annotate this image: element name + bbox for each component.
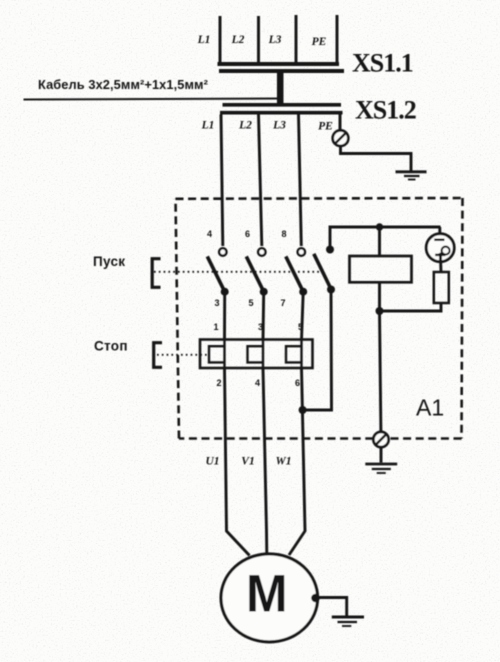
wire pole3 to overload <box>302 292 304 340</box>
node coil bottom junction <box>376 307 384 315</box>
wire L3 supply top <box>295 15 298 63</box>
svg-text:6: 6 <box>245 229 250 239</box>
cable label leader line <box>24 99 282 100</box>
ground (control circuit) <box>365 464 397 473</box>
svg-text:L3: L3 <box>272 120 286 132</box>
wire to lamp <box>438 227 441 239</box>
wire L2 XS1.2 to contact <box>259 115 262 247</box>
wire lamp to resistor <box>439 255 443 272</box>
svg-text:3: 3 <box>214 298 219 308</box>
svg-text:4: 4 <box>255 378 260 388</box>
contact KM1.2 (pole 2) <box>246 248 267 295</box>
wire W1 overload to motor <box>289 368 305 555</box>
connector XS1.2 upper bar <box>223 103 342 107</box>
terminal A1-PE (screw clamp) <box>373 432 388 447</box>
svg-text:L3: L3 <box>268 34 282 46</box>
lamp HL1 <box>426 234 454 262</box>
terminal PE (screw clamp) <box>333 130 349 146</box>
wire junction to coil <box>378 227 381 256</box>
svg-text:W1: W1 <box>276 456 292 468</box>
svg-text:Пуск: Пуск <box>93 254 125 269</box>
aux contact bottom terminal dot <box>327 286 335 294</box>
svg-text:L2: L2 <box>238 120 252 132</box>
thermal element phase 2 <box>248 340 264 369</box>
aux contact KM1.4 top wire <box>330 227 441 250</box>
svg-text:Кабель 3х2,5мм²+1х1,5мм²: Кабель 3х2,5мм²+1х1,5мм² <box>38 77 208 92</box>
node coil feed junction <box>376 223 383 230</box>
ground (motor) <box>332 617 364 626</box>
wire terminal to ground <box>380 447 383 463</box>
svg-text:L2: L2 <box>231 34 245 46</box>
linkage dotted line (stop) <box>157 354 207 356</box>
linkage dotted line (start) <box>154 271 322 273</box>
svg-text:8: 8 <box>281 229 286 239</box>
cable (thick link XS1.1 to XS1.2) <box>277 73 284 104</box>
svg-text:5: 5 <box>248 298 253 308</box>
wire L2 supply top <box>257 16 260 63</box>
ground (PE input) <box>396 172 427 180</box>
wire V1 overload to motor <box>263 368 267 555</box>
thermal element phase 3 <box>286 340 302 369</box>
wire junction to resistor bottom <box>380 303 442 311</box>
svg-text:1: 1 <box>213 322 218 332</box>
node aux-to-W1 junction <box>299 406 307 414</box>
wire pole1 to overload <box>223 292 226 340</box>
connector XS1.1 upper bar <box>218 62 340 66</box>
wire PE XS1.2 stub <box>339 115 342 132</box>
wire L3 XS1.2 to contact <box>299 115 302 247</box>
svg-text:2: 2 <box>216 378 221 388</box>
wire coil to bottom junction <box>378 282 381 311</box>
wire PE supply top <box>336 15 339 63</box>
coil KM1 <box>350 256 412 282</box>
wire coil to PE terminal <box>380 311 381 432</box>
aux contact blade <box>314 254 331 289</box>
svg-text:V1: V1 <box>241 456 254 468</box>
svg-text:A1: A1 <box>416 395 444 421</box>
wire pole2 to overload <box>262 292 266 340</box>
motor M1 <box>221 554 318 642</box>
aux contact top terminal dot <box>326 246 334 254</box>
contact KM1.3 (pole 3) <box>286 248 307 295</box>
svg-text:Стоп: Стоп <box>94 339 128 354</box>
thermal overload relay KK1 box <box>200 340 313 369</box>
connector XS1.1 lower bar <box>219 69 344 73</box>
svg-text:M: M <box>246 564 288 622</box>
wire aux return to W1 <box>303 290 332 410</box>
thermal element phase 1 <box>209 340 225 369</box>
svg-text:6: 6 <box>295 378 300 388</box>
wire L1 supply top <box>219 16 222 63</box>
svg-text:XS1.1: XS1.1 <box>352 49 413 78</box>
resistor R1 <box>434 272 449 303</box>
svg-text:XS1.2: XS1.2 <box>355 96 416 125</box>
contact KM1.1 (pole 1: circle, blade, dot) <box>207 248 228 295</box>
svg-text:PE: PE <box>318 121 333 133</box>
start button bracket <box>152 259 160 288</box>
connector XS1.2 lower bar <box>220 111 343 115</box>
svg-text:L1: L1 <box>201 120 215 132</box>
node motor PE tap <box>311 594 320 603</box>
svg-text:PE: PE <box>312 36 327 48</box>
svg-text:U1: U1 <box>205 456 219 468</box>
svg-text:4: 4 <box>207 229 212 239</box>
wire PE to ground <box>341 146 412 171</box>
svg-text:L1: L1 <box>197 34 211 46</box>
stop button bracket <box>154 343 162 368</box>
enclosure A1 dashed box <box>176 198 463 439</box>
wire U1 overload to motor <box>225 368 250 556</box>
svg-text:7: 7 <box>280 298 285 308</box>
wire motor to ground <box>316 598 347 616</box>
wire L1 XS1.2 to contact <box>221 115 223 247</box>
